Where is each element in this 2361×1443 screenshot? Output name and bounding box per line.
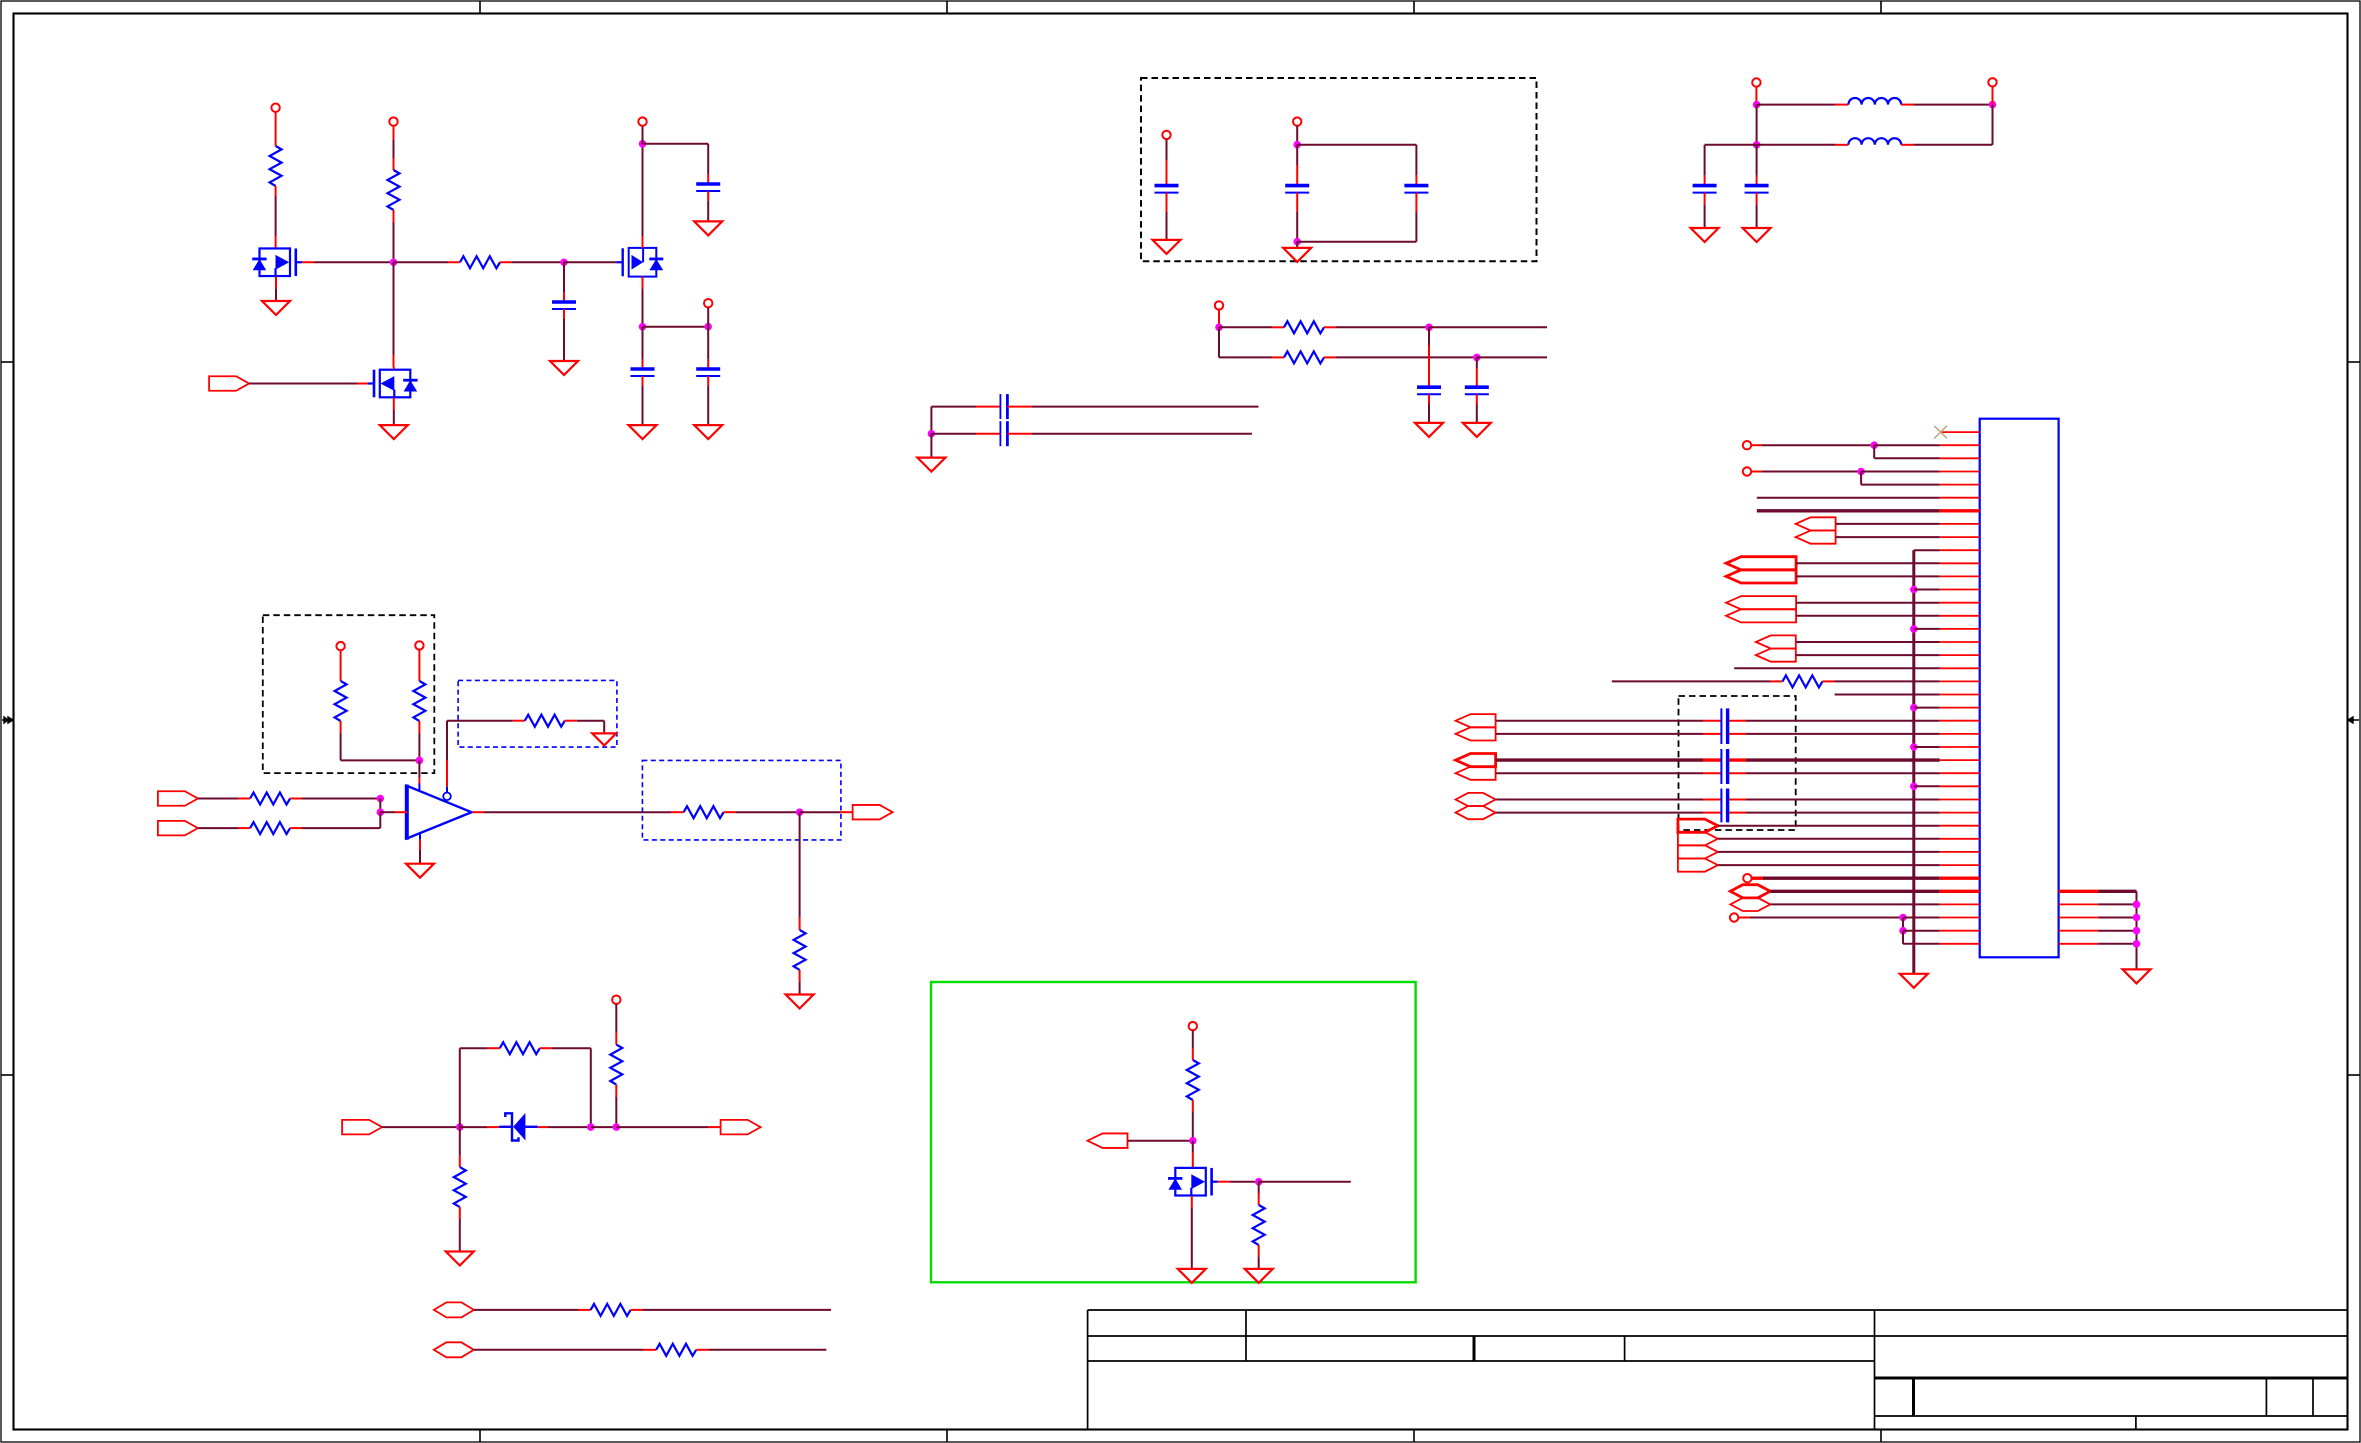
port PH3	[1678, 845, 1718, 858]
pin wire	[357, 383, 368, 385]
pin wire	[642, 376, 644, 386]
wire	[447, 720, 513, 722]
power port P12	[612, 996, 620, 1004]
pin wire	[615, 1085, 617, 1097]
pin 22	[1940, 707, 1980, 709]
wire	[1296, 145, 1298, 165]
pin 37	[1940, 903, 1980, 905]
ground	[1743, 228, 1771, 242]
pin wire	[302, 261, 314, 263]
wire	[1718, 838, 1940, 840]
pin wire	[1218, 310, 1220, 328]
pin 21	[1940, 694, 1980, 696]
pin wire	[238, 798, 250, 800]
junction	[456, 1123, 464, 1131]
pin 7	[1940, 509, 1980, 512]
no-connect cross pin 1	[1934, 426, 1947, 439]
junction	[2133, 927, 2141, 935]
pin wire	[1704, 193, 1706, 205]
resistor R13	[610, 1045, 622, 1085]
ground	[1283, 248, 1311, 262]
dashed enclosure box	[263, 615, 435, 773]
capacitor C12	[999, 394, 1001, 419]
pin wire	[1823, 680, 1835, 682]
ground	[406, 864, 434, 878]
power port P15	[1743, 467, 1751, 475]
pin wire	[1191, 1196, 1193, 1208]
wire	[1192, 1141, 1194, 1152]
pin wire	[459, 1207, 461, 1219]
wire output	[484, 811, 671, 813]
green highlight box	[931, 982, 1416, 1282]
wire	[615, 1097, 617, 1127]
wire down	[707, 144, 709, 174]
pin wire	[976, 406, 1000, 408]
pin wire	[393, 210, 395, 222]
wire	[1128, 1140, 1193, 1142]
pin wire	[1415, 175, 1417, 186]
wire	[1336, 356, 1477, 358]
ground	[2123, 969, 2151, 983]
pin wire	[1007, 406, 1032, 408]
wire	[460, 1047, 488, 1049]
wire	[380, 811, 395, 813]
power port P8	[1988, 78, 1996, 86]
pin wire	[1992, 87, 1994, 105]
junction	[639, 140, 647, 148]
zone tick right 1	[2348, 361, 2361, 363]
pin 25	[1940, 746, 1980, 748]
pin wire	[340, 650, 342, 669]
capacitor C8	[1693, 184, 1717, 188]
pin wire	[393, 158, 395, 170]
port IN2	[342, 1120, 382, 1135]
wire	[1762, 471, 1861, 473]
wire	[577, 720, 604, 722]
junction	[1989, 101, 1997, 109]
wire down	[1902, 918, 1904, 931]
pin wire	[290, 827, 302, 829]
wire	[643, 1309, 831, 1311]
pin wire	[1272, 356, 1284, 358]
port PA2	[1796, 531, 1836, 544]
junction	[928, 430, 936, 438]
junction	[377, 808, 385, 816]
port PD2	[1756, 649, 1796, 662]
wire	[1796, 641, 1940, 643]
pin wire	[393, 126, 395, 140]
pin 32	[1940, 838, 1980, 840]
bus wire	[1757, 509, 1940, 512]
pin wire	[642, 277, 644, 289]
junction	[1753, 101, 1761, 109]
ground	[1245, 1269, 1273, 1283]
pin wire	[1755, 87, 1757, 105]
ground	[550, 361, 578, 375]
pin wire	[696, 1349, 709, 1351]
wire	[1415, 212, 1417, 242]
port PG1	[1456, 793, 1496, 806]
pin wire	[1901, 104, 1914, 106]
pin wire	[1476, 394, 1478, 404]
junction	[1425, 324, 1433, 332]
wire	[1903, 930, 1940, 932]
wire	[1746, 812, 1940, 814]
wire left	[1705, 144, 1757, 146]
ground	[380, 425, 408, 439]
junction node RC	[560, 258, 568, 266]
capacitor C10	[1417, 385, 1441, 389]
pin 24	[1940, 733, 1980, 735]
wire bus to pin 10	[1914, 549, 1940, 551]
wire	[1756, 105, 1758, 145]
pin wire	[1428, 345, 1430, 387]
pin 14	[1940, 602, 1980, 604]
wire up	[1992, 105, 1994, 145]
ground	[1153, 240, 1181, 254]
wire	[1428, 404, 1430, 423]
dashed box (blue)	[642, 760, 841, 840]
zone tick left 2	[1, 1074, 14, 1076]
ground bus	[1912, 550, 1915, 974]
dashed enclosure box	[1679, 696, 1796, 830]
pin wire	[1756, 193, 1758, 205]
pin wire	[393, 355, 395, 367]
wire	[1914, 104, 1993, 106]
wire	[1336, 326, 1429, 328]
wire	[1861, 484, 1940, 486]
pin 15	[1940, 615, 1980, 617]
inductor L1	[1848, 98, 1901, 105]
wire top link	[1297, 144, 1416, 146]
wire down	[1873, 445, 1875, 458]
pin wire	[393, 398, 395, 410]
pin 29	[1940, 799, 1980, 801]
pin wire	[724, 811, 736, 813]
pin 11	[1940, 562, 1980, 564]
ground	[1900, 974, 1928, 988]
wire down	[1258, 1182, 1260, 1193]
power port P1	[271, 104, 279, 112]
pin wire	[1428, 394, 1430, 404]
power port P9	[1215, 301, 1223, 309]
pin 33	[1940, 851, 1980, 853]
wire down	[1902, 931, 1904, 944]
power port P2	[389, 117, 397, 125]
power port P13	[1189, 1022, 1197, 1030]
pin wire	[563, 292, 565, 302]
port PJ1	[1730, 885, 1770, 898]
pin wire	[275, 186, 277, 196]
port PE1	[1456, 714, 1496, 727]
resistor R2	[388, 170, 400, 210]
junction	[2133, 940, 2141, 948]
junction	[1255, 1178, 1263, 1186]
pin 27	[1940, 772, 1980, 774]
junction	[1899, 927, 1907, 935]
wire	[642, 386, 644, 425]
port PE2	[1456, 727, 1496, 740]
resistor R17	[656, 1344, 696, 1356]
capacitor stack C14	[1720, 708, 1722, 744]
pin wire	[275, 236, 277, 248]
schottky diode D1	[499, 1113, 538, 1141]
junction on ground bus	[1910, 625, 1918, 633]
junction	[1215, 324, 1223, 332]
pin wire	[1728, 720, 1746, 722]
zone tick top 1	[479, 1, 481, 14]
resistor R15	[454, 1167, 466, 1207]
pin 31	[1940, 825, 1980, 827]
capacitor C4	[696, 367, 720, 371]
zone tick left 1	[1, 361, 14, 363]
transistor Q3	[368, 370, 418, 398]
wire	[1704, 205, 1706, 228]
wire	[1612, 680, 1771, 682]
wire	[1191, 1208, 1193, 1269]
pin wire	[1704, 175, 1706, 186]
wire	[512, 261, 564, 263]
pin wire	[799, 918, 801, 930]
wire	[1296, 126, 1298, 145]
wire	[418, 733, 420, 760]
pin wire	[1192, 1100, 1194, 1112]
power port P10	[336, 642, 344, 650]
pin wire	[1728, 772, 1746, 774]
junction on ground bus	[1910, 704, 1918, 712]
wire	[1496, 733, 1703, 735]
pin 36	[1940, 890, 1980, 893]
junction	[1899, 914, 1907, 922]
wire corner down	[930, 407, 932, 434]
power port P7	[1752, 78, 1760, 86]
wire bus to pin	[1914, 707, 1940, 709]
pin 9	[1940, 536, 1980, 538]
wire down	[799, 812, 801, 918]
op-amp U1	[407, 786, 472, 839]
wire	[418, 760, 420, 778]
ground	[1463, 423, 1491, 437]
wire	[1796, 575, 1940, 577]
pin wire	[1703, 733, 1721, 735]
wire	[302, 798, 380, 800]
wire up	[459, 1048, 461, 1127]
wire node RC down	[563, 262, 565, 292]
pin 10	[1940, 549, 1980, 551]
pin wire	[418, 669, 420, 681]
pin wire	[1272, 326, 1284, 328]
wire up	[379, 812, 381, 828]
capacitor C7	[1404, 184, 1428, 188]
wire	[1219, 326, 1272, 328]
resistor R8	[525, 715, 565, 727]
junction	[587, 1123, 595, 1131]
pin wire	[238, 827, 250, 829]
wire	[1874, 457, 1940, 459]
pin 40	[1940, 943, 1980, 945]
wire Q1 gate to node	[314, 261, 394, 263]
power port P16	[1743, 874, 1751, 882]
ground	[446, 1252, 474, 1266]
wire	[1496, 720, 1703, 722]
wire	[275, 289, 277, 301]
junction	[1189, 1137, 1197, 1145]
pin 8	[1940, 523, 1980, 525]
pin 20	[1940, 680, 1980, 682]
wire down	[1415, 145, 1417, 175]
pin wire	[418, 721, 420, 733]
wire	[615, 1004, 617, 1032]
wire	[1770, 903, 1939, 905]
pin 3	[1940, 457, 1980, 459]
pin wire	[1296, 165, 1298, 186]
wire	[1496, 812, 1703, 814]
pin wire	[671, 811, 684, 813]
pin wire	[1166, 160, 1168, 186]
pin wire	[1258, 1245, 1260, 1257]
port INB	[158, 821, 198, 836]
resistor R1	[270, 146, 282, 186]
wire	[1166, 212, 1168, 240]
ground	[917, 458, 945, 472]
zone tick bottom 3	[1413, 1430, 1415, 1443]
wire	[474, 1349, 643, 1351]
wire	[1796, 615, 1940, 617]
junction on ground bus	[1910, 743, 1918, 751]
pin wire	[1835, 144, 1848, 146]
wire	[340, 733, 342, 760]
wire down	[590, 1048, 592, 1127]
wire	[1835, 680, 1940, 682]
pin wire	[459, 1155, 461, 1167]
wire	[2098, 943, 2136, 945]
pin 39	[1940, 930, 1980, 932]
pin wire	[707, 359, 709, 369]
ground	[694, 221, 722, 235]
wire	[552, 1047, 591, 1049]
wire node G right	[394, 261, 449, 263]
zone tick bottom 4	[1880, 1430, 1882, 1443]
pin wire	[540, 1047, 552, 1049]
pin wire	[799, 970, 801, 982]
dashed enclosure box	[1141, 78, 1537, 261]
pin wire	[565, 720, 577, 722]
port PG2	[1456, 806, 1496, 819]
pin wire	[1415, 193, 1417, 212]
capacitor C6	[1285, 184, 1309, 188]
capacitor C9	[1745, 184, 1769, 188]
pin wire	[1728, 733, 1746, 735]
wire to C2	[643, 143, 709, 145]
pin wire	[615, 1032, 617, 1045]
bus wire	[2098, 890, 2136, 893]
junction	[1870, 441, 1878, 449]
pin 12	[1940, 575, 1980, 577]
wire to Q2 gate	[564, 261, 618, 263]
wire	[302, 827, 380, 829]
wire	[1796, 562, 1940, 564]
wire	[1836, 536, 1940, 538]
wire	[382, 1126, 460, 1128]
port BIO1	[434, 1302, 474, 1317]
wire	[1796, 654, 1940, 656]
wire	[379, 799, 381, 813]
wire Q2 source down	[642, 289, 644, 327]
wire	[1296, 212, 1298, 242]
pin 4	[1940, 471, 1980, 473]
junction	[2133, 901, 2141, 909]
pin wire	[513, 720, 525, 722]
wire	[931, 433, 976, 435]
pin 34	[1940, 864, 1980, 866]
wire	[1903, 917, 1940, 919]
wire	[393, 222, 395, 262]
port PH1	[1678, 819, 1718, 832]
wire	[1192, 1112, 1194, 1141]
pin wire	[707, 174, 709, 184]
wire Q2 drain up	[642, 144, 644, 236]
capacitor C2	[696, 182, 720, 186]
resistor R16	[591, 1304, 631, 1316]
wire	[642, 126, 644, 144]
junction	[613, 1123, 621, 1131]
pin wire	[1703, 812, 1721, 814]
wire down	[1428, 327, 1430, 345]
wire down	[1704, 145, 1706, 175]
wire	[1496, 772, 1703, 774]
inductor L2	[1848, 138, 1901, 145]
port IN1	[209, 376, 249, 391]
capacitor stack C16	[1720, 789, 1722, 823]
wire bottom link	[1297, 241, 1416, 243]
power port P17	[1730, 913, 1738, 921]
wire	[799, 982, 801, 995]
pin wire	[1476, 368, 1478, 387]
wire	[1032, 406, 1259, 408]
port BIO2	[434, 1342, 474, 1357]
port CTRL	[1088, 1133, 1128, 1148]
pin 18	[1940, 654, 1980, 656]
pin wire	[275, 112, 277, 146]
wire	[1718, 851, 1940, 853]
wire	[198, 827, 238, 829]
resistor R19	[1253, 1205, 1265, 1245]
port PB2	[1726, 570, 1796, 583]
capacitor C3	[631, 367, 655, 371]
pin wire	[1703, 758, 1721, 761]
wire	[1258, 1257, 1260, 1269]
junction on ground bus	[1910, 586, 1918, 594]
power port P3	[638, 117, 646, 125]
wire	[198, 798, 238, 800]
wire	[1757, 497, 1940, 499]
wire	[707, 386, 709, 425]
ground	[592, 733, 616, 745]
junction	[639, 323, 647, 331]
centre arrow left	[2, 717, 13, 723]
wire	[736, 811, 800, 813]
ground	[694, 425, 722, 439]
wire	[1734, 667, 1940, 669]
port INA	[158, 791, 198, 806]
wire	[1718, 864, 1940, 866]
pin wire	[448, 261, 460, 263]
bus wire	[1496, 758, 1703, 761]
wire	[1477, 356, 1547, 358]
junction	[377, 795, 385, 803]
port PH2	[1678, 832, 1718, 845]
pin wire	[976, 433, 1000, 435]
